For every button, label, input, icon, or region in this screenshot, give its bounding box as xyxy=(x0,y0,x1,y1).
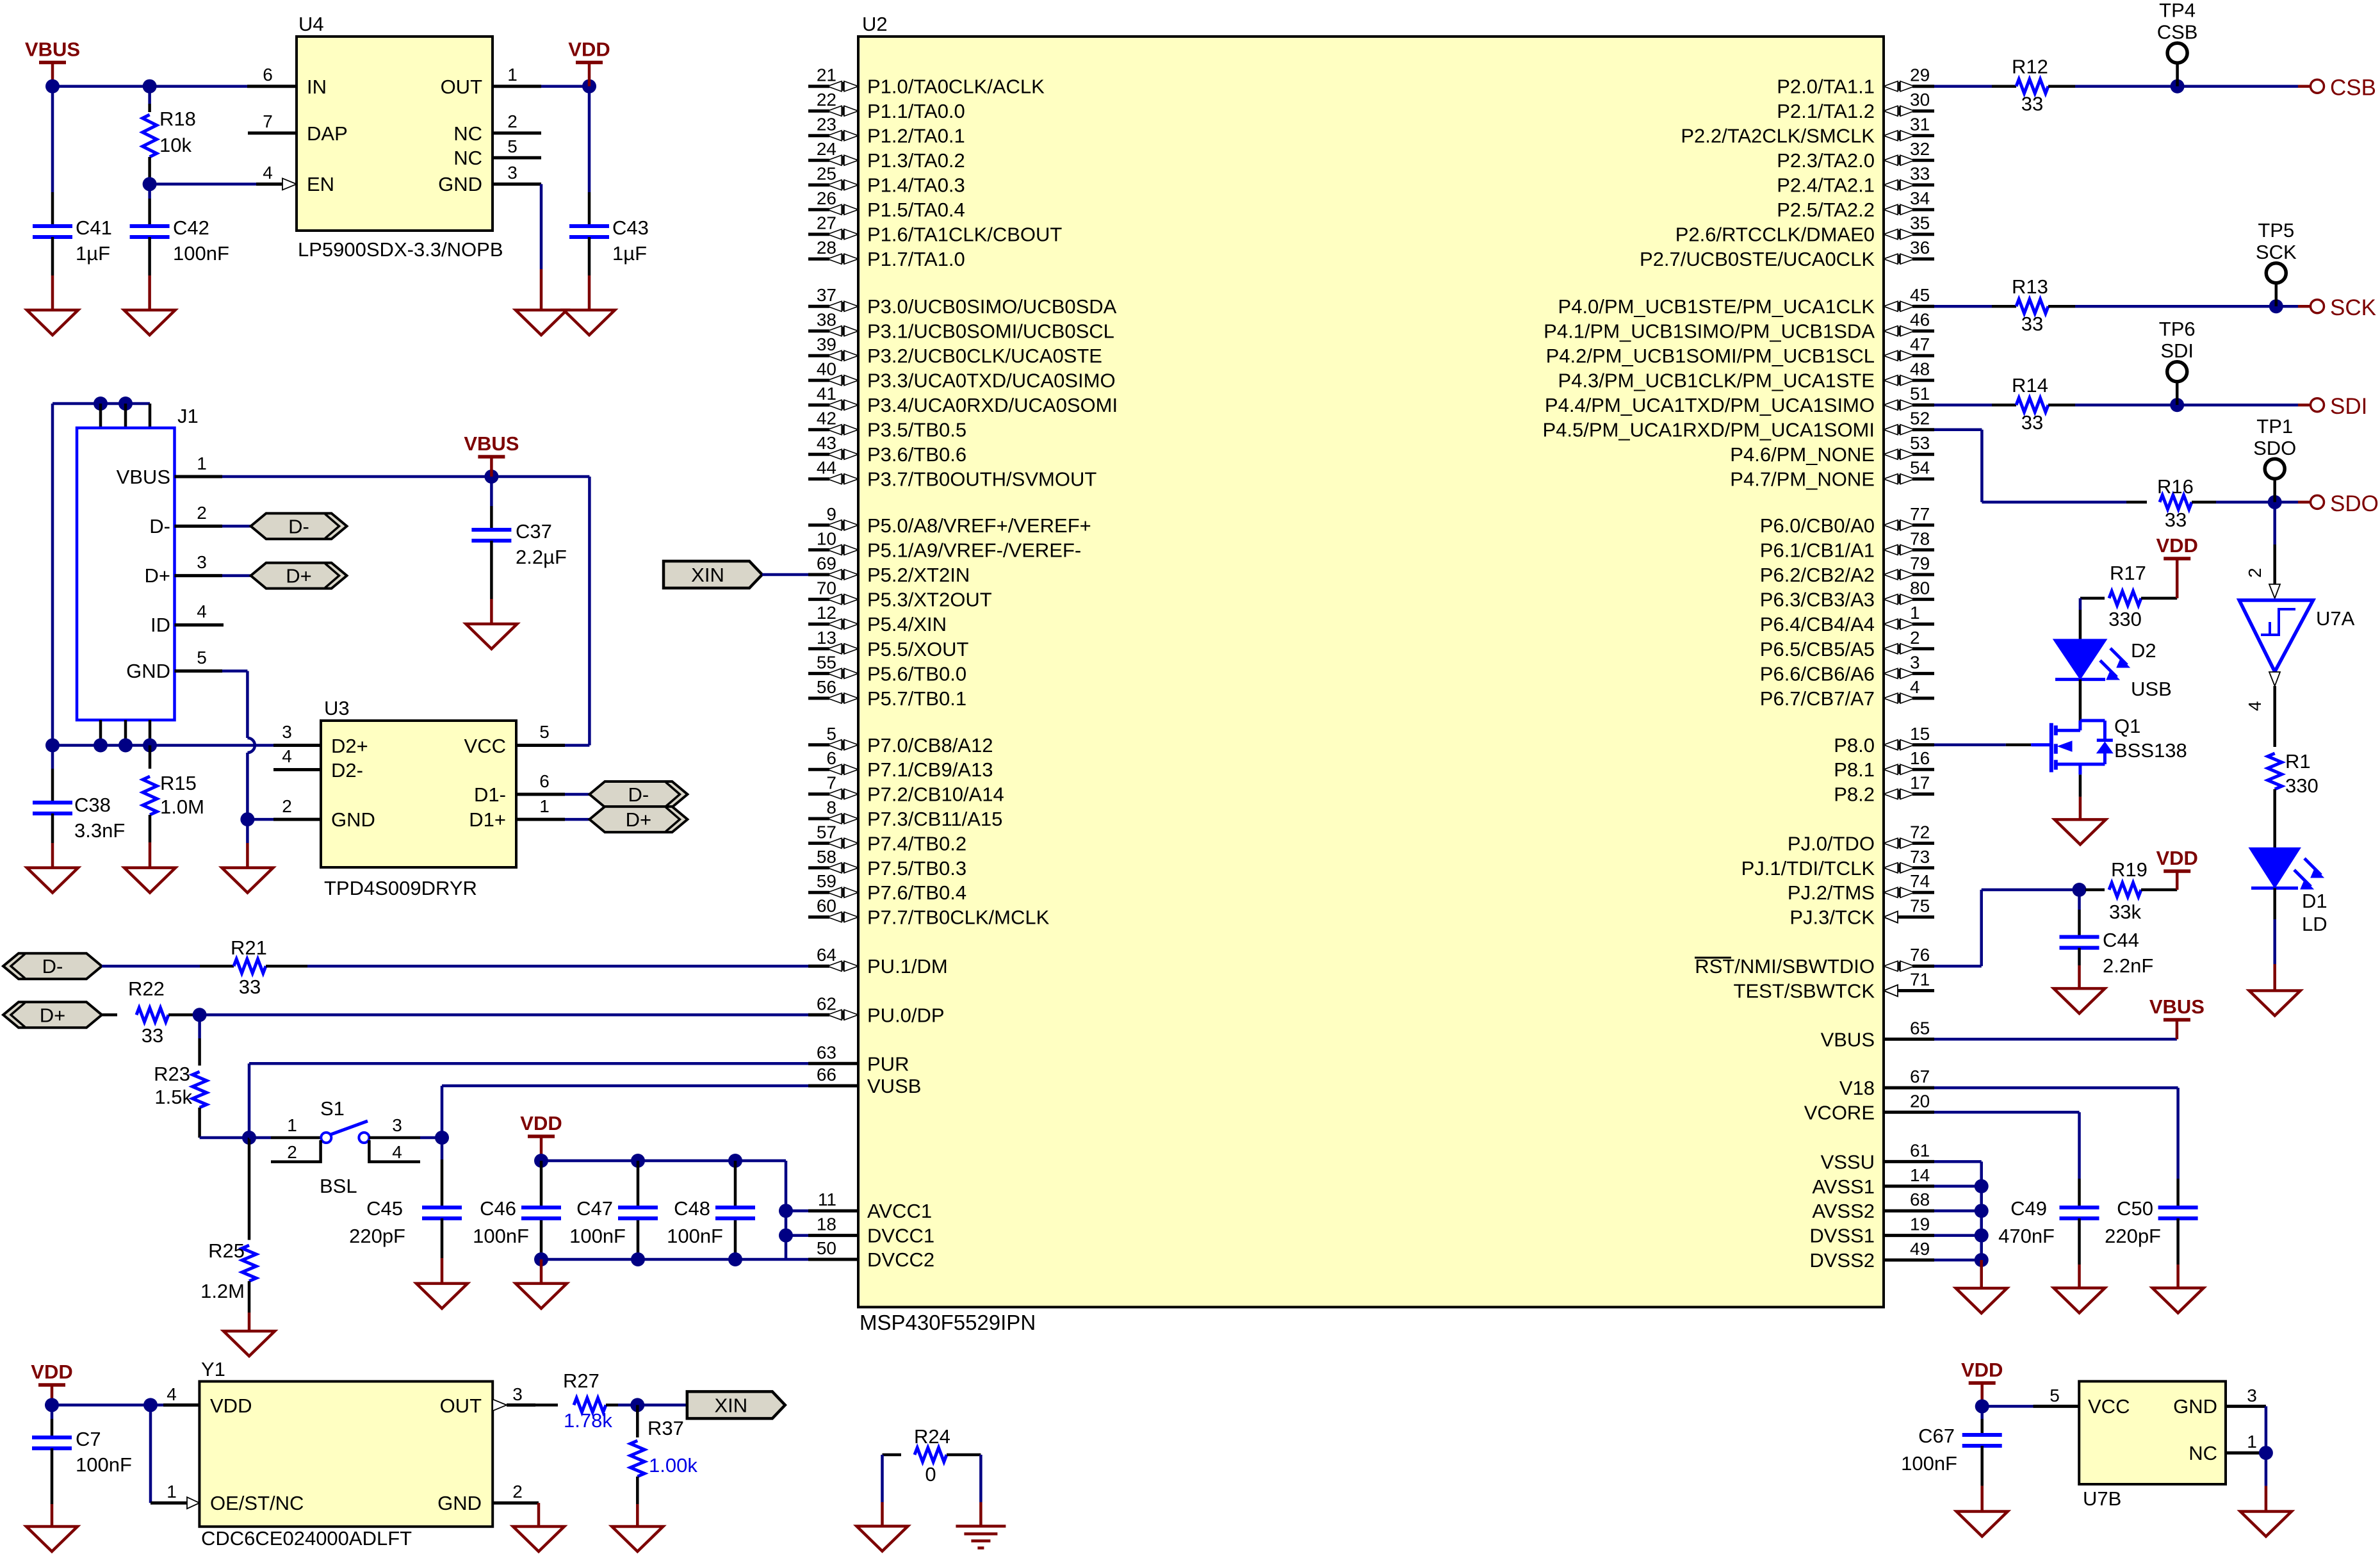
pin 35 P2.6/RTCCLK/DMAE0 xyxy=(1884,229,1898,240)
pin 74 PJ.2/TMS xyxy=(1884,887,1898,897)
svg-text:R23: R23 xyxy=(154,1063,190,1085)
svg-text:D1: D1 xyxy=(2302,890,2327,912)
svg-text:BSL: BSL xyxy=(320,1175,357,1197)
svg-text:2: 2 xyxy=(507,111,518,131)
svg-text:P6.2/CB2/A2: P6.2/CB2/A2 xyxy=(1760,564,1875,586)
pin 30 P2.1/TA1.2 xyxy=(1884,106,1898,116)
svg-text:OUT: OUT xyxy=(441,76,483,98)
resistor R37 xyxy=(636,1405,639,1437)
svg-text:P6.5/CB5/A5: P6.5/CB5/A5 xyxy=(1760,638,1875,660)
svg-text:72: 72 xyxy=(1910,822,1930,842)
svg-text:22: 22 xyxy=(817,90,836,110)
wire Y1 OE xyxy=(149,1405,152,1503)
svg-text:2: 2 xyxy=(1910,628,1920,648)
wire C67 to ground xyxy=(1980,1446,1984,1486)
svg-text:P3.6/TB0.6: P3.6/TB0.6 xyxy=(867,443,966,466)
pin 39 P3.2/UCB0CLK/UCA0STE xyxy=(808,354,829,357)
svg-text:5: 5 xyxy=(539,722,550,742)
pin 75 PJ.3/TCK xyxy=(1884,912,1898,923)
ground under U3 xyxy=(222,868,273,893)
svg-text:IN: IN xyxy=(307,76,327,98)
junction EN node xyxy=(143,177,157,191)
svg-text:C41: C41 xyxy=(76,217,112,239)
svg-text:VDD: VDD xyxy=(568,38,610,61)
pin 1 P6.4/CB4/A4 xyxy=(1884,619,1898,629)
svg-text:P7.6/TB0.4: P7.6/TB0.4 xyxy=(867,881,966,904)
svg-text:76: 76 xyxy=(1910,945,1930,965)
svg-text:P6.3/CB3/A3: P6.3/CB3/A3 xyxy=(1760,589,1875,611)
pin 69 P5.2/XT2IN xyxy=(808,573,829,577)
wire C41 to ground xyxy=(51,237,54,275)
svg-text:P1.5/TA0.4: P1.5/TA0.4 xyxy=(867,199,965,221)
pin 79 P6.2/CB2/A2 xyxy=(1884,569,1898,580)
net flag D+ (J1) xyxy=(251,563,347,589)
wire R23 to S1 node xyxy=(200,1136,249,1140)
svg-text:79: 79 xyxy=(1910,553,1930,573)
svg-text:MSP430F5529IPN: MSP430F5529IPN xyxy=(860,1311,1036,1334)
junction shield top a xyxy=(94,397,108,411)
ground under Q1 xyxy=(2055,819,2106,844)
wire VDD rail xyxy=(541,1159,786,1163)
svg-text:P4.1/PM_UCB1SIMO/PM_UCB1SDA: P4.1/PM_UCB1SIMO/PM_UCB1SDA xyxy=(1544,320,1875,343)
terminal CSB xyxy=(2298,85,2310,88)
svg-text:74: 74 xyxy=(1910,871,1930,891)
svg-text:1: 1 xyxy=(539,796,550,816)
svg-text:27: 27 xyxy=(817,213,836,233)
svg-text:1: 1 xyxy=(167,1482,177,1502)
svg-text:8: 8 xyxy=(826,798,836,817)
ground under C46 xyxy=(516,1284,567,1309)
svg-text:D1-: D1- xyxy=(474,783,506,806)
svg-text:GND: GND xyxy=(2173,1395,2217,1418)
wire R1 to D1 xyxy=(2273,789,2276,847)
wire OUT to VDD xyxy=(541,85,589,88)
svg-text:12: 12 xyxy=(817,603,836,623)
svg-text:J1: J1 xyxy=(177,405,199,427)
junction XIN node xyxy=(630,1398,644,1412)
svg-text:220pF: 220pF xyxy=(2105,1225,2161,1247)
svg-text:V18: V18 xyxy=(1839,1077,1875,1099)
wire GND to U3 pin2 xyxy=(247,818,273,821)
svg-text:33: 33 xyxy=(2021,411,2043,434)
ground under C37 xyxy=(466,624,517,649)
RST overline xyxy=(1695,957,1731,959)
svg-text:P6.0/CB0/A0: P6.0/CB0/A0 xyxy=(1760,514,1875,537)
svg-text:75: 75 xyxy=(1910,896,1930,916)
wire R12 to CSB xyxy=(2075,85,2298,88)
pin 73 PJ.1/TDI/TCLK xyxy=(1884,863,1898,873)
svg-text:XIN: XIN xyxy=(691,564,724,586)
pin 21 P1.0/TA0CLK/ACLK xyxy=(808,85,829,88)
wire PUR net xyxy=(249,1062,808,1065)
svg-text:4: 4 xyxy=(1910,677,1920,697)
wire VUSB net xyxy=(441,1086,444,1138)
pin 17 P8.2 xyxy=(1884,789,1898,799)
pin 20 VCORE xyxy=(1884,1111,1934,1114)
capacitor C67 xyxy=(1962,1433,2002,1437)
svg-text:31: 31 xyxy=(1910,115,1930,135)
net flag D+ (U3) xyxy=(589,806,687,832)
pin 4 P6.7/CB7/A7 xyxy=(1884,693,1898,703)
svg-text:R14: R14 xyxy=(2012,374,2048,397)
power flag VDD (Y1) xyxy=(38,1383,65,1387)
pin 18 DVCC1 xyxy=(808,1234,858,1237)
wire pin45 to R13 xyxy=(1934,305,1992,308)
svg-text:D2+: D2+ xyxy=(331,735,368,757)
svg-text:2: 2 xyxy=(197,503,207,523)
wire DVCC1 stub xyxy=(786,1234,808,1237)
pin 3 P6.6/CB6/A6 xyxy=(1884,668,1898,678)
svg-text:P2.5/TA2.2: P2.5/TA2.2 xyxy=(1777,199,1875,221)
resistor R21 xyxy=(234,959,266,973)
svg-text:P2.2/TA2CLK/SMCLK: P2.2/TA2CLK/SMCLK xyxy=(1681,125,1875,147)
svg-text:P4.5/PM_UCA1RXD/PM_UCA1SOMI: P4.5/PM_UCA1RXD/PM_UCA1SOMI xyxy=(1542,419,1875,441)
resistor R19 xyxy=(2085,888,2105,892)
svg-text:71: 71 xyxy=(1910,970,1930,990)
capacitor C43 xyxy=(569,224,609,228)
svg-text:33: 33 xyxy=(2165,509,2187,531)
pin 1 stub J1 VBUS xyxy=(175,475,223,479)
svg-text:P1.3/TA0.2: P1.3/TA0.2 xyxy=(867,149,965,172)
svg-text:4: 4 xyxy=(282,746,292,766)
wire pin76 to R19 node xyxy=(1934,965,1982,968)
svg-text:U7B: U7B xyxy=(2083,1487,2121,1510)
wire C42 lead xyxy=(148,184,151,199)
junction DVCC1 node xyxy=(779,1229,793,1243)
junction SDO at TP1 xyxy=(2268,495,2282,509)
pin 2 P6.5/CB5/A5 xyxy=(1884,644,1898,654)
capacitor C50 xyxy=(2158,1206,2198,1209)
svg-text:P7.3/CB11/A15: P7.3/CB11/A15 xyxy=(867,808,1002,830)
switch S1 BSL xyxy=(249,1136,271,1140)
svg-text:48: 48 xyxy=(1910,359,1930,379)
svg-text:C67: C67 xyxy=(1918,1425,1955,1447)
svg-text:7: 7 xyxy=(826,773,836,793)
svg-text:P8.2: P8.2 xyxy=(1834,783,1875,806)
svg-text:57: 57 xyxy=(817,822,836,842)
svg-text:AVSS1: AVSS1 xyxy=(1812,1175,1875,1198)
svg-text:77: 77 xyxy=(1910,504,1930,524)
svg-text:28: 28 xyxy=(817,238,836,258)
svg-text:1.0M: 1.0M xyxy=(160,796,204,818)
svg-text:P2.6/RTCCLK/DMAE0: P2.6/RTCCLK/DMAE0 xyxy=(1675,224,1875,246)
svg-text:U7A: U7A xyxy=(2316,607,2355,630)
ground under C49 xyxy=(2054,1288,2105,1313)
svg-text:P5.5/XOUT: P5.5/XOUT xyxy=(867,638,969,660)
terminal SCK xyxy=(2298,305,2310,308)
svg-text:VDD: VDD xyxy=(210,1395,252,1417)
ground under C45 xyxy=(416,1284,468,1309)
capacitor C47 xyxy=(618,1206,658,1209)
wire VBUS to U4 IN xyxy=(53,85,247,88)
svg-text:C38: C38 xyxy=(74,794,111,816)
svg-text:TP1: TP1 xyxy=(2256,415,2293,438)
pin 49 DVSS2 xyxy=(1884,1259,1934,1262)
net flag D- (J1) xyxy=(251,513,347,539)
wire R21 to PU.1 xyxy=(307,965,808,968)
svg-text:2: 2 xyxy=(512,1482,523,1502)
svg-text:65: 65 xyxy=(1910,1018,1930,1038)
pin 1 stub U3 D1+ xyxy=(516,818,565,821)
ground under R37 xyxy=(612,1526,663,1551)
junction CSB at TP4 xyxy=(2171,79,2185,94)
svg-text:2.2nF: 2.2nF xyxy=(2103,954,2153,977)
svg-text:20: 20 xyxy=(1910,1091,1930,1111)
junction DVSS1 xyxy=(1975,1229,1989,1243)
svg-text:3.3nF: 3.3nF xyxy=(74,819,125,842)
svg-text:R17: R17 xyxy=(2110,562,2146,584)
junction shield bottom left xyxy=(45,739,60,753)
ground under C44 xyxy=(2054,988,2105,1013)
svg-text:10k: 10k xyxy=(159,134,192,156)
wire R16 to SDO xyxy=(2216,501,2298,504)
svg-text:55: 55 xyxy=(817,652,836,672)
pin 78 P6.1/CB1/A1 xyxy=(1884,544,1898,555)
power flag VDD (R19) xyxy=(2164,869,2190,873)
svg-text:7: 7 xyxy=(263,111,273,131)
wire C42 to ground xyxy=(148,237,151,275)
svg-text:PJ.3/TCK: PJ.3/TCK xyxy=(1789,906,1875,929)
svg-text:VSSU: VSSU xyxy=(1821,1150,1875,1173)
svg-text:50: 50 xyxy=(817,1238,836,1258)
svg-text:5: 5 xyxy=(197,648,207,667)
wire J1 D- to flag xyxy=(222,525,251,528)
pin 64 PU.1/DM xyxy=(808,965,829,968)
svg-text:R13: R13 xyxy=(2012,275,2048,298)
svg-text:C48: C48 xyxy=(674,1197,710,1220)
capacitor C7 xyxy=(32,1436,72,1439)
svg-text:100nF: 100nF xyxy=(473,1225,529,1247)
junction SDI at TP6 xyxy=(2170,398,2184,412)
svg-text:P3.2/UCB0CLK/UCA0STE: P3.2/UCB0CLK/UCA0STE xyxy=(867,345,1102,367)
junction shield bottom a xyxy=(94,739,108,753)
junction U3 GND node xyxy=(240,812,254,826)
pin 67 V18 xyxy=(1884,1086,1934,1090)
wire C67 lead xyxy=(1980,1406,1984,1419)
svg-text:3: 3 xyxy=(2247,1386,2257,1405)
junction shield bottom c xyxy=(143,739,157,753)
ground under C67 xyxy=(1957,1512,2008,1537)
svg-text:XIN: XIN xyxy=(714,1394,747,1416)
ground under D1 xyxy=(2249,991,2301,1016)
wire U7B to ground xyxy=(2265,1453,2268,1486)
svg-text:VDD: VDD xyxy=(2156,847,2197,869)
pin 23 P1.2/TA0.1 xyxy=(808,134,829,137)
wire SDO to U7A pin2 xyxy=(2273,502,2276,544)
pin 1 stub U7B NC xyxy=(2226,1452,2266,1455)
pin 13 P5.5/XOUT xyxy=(808,647,829,650)
pin 34 P2.5/TA2.2 xyxy=(1884,204,1898,215)
svg-text:D1+: D1+ xyxy=(469,808,506,831)
ground under C50 xyxy=(2153,1288,2204,1313)
svg-text:41: 41 xyxy=(817,384,836,404)
svg-text:VBUS: VBUS xyxy=(464,432,519,455)
svg-text:SDO: SDO xyxy=(2330,491,2379,516)
pin 72 PJ.0/TDO xyxy=(1884,838,1898,848)
pin 54 P4.7/PM_NONE xyxy=(1884,474,1898,484)
wire J1 VBUS to U3 VCC xyxy=(222,475,491,479)
wire Q1 source to ground xyxy=(2079,774,2082,797)
svg-text:NC: NC xyxy=(453,147,482,169)
svg-text:D2-: D2- xyxy=(331,759,363,781)
wire C49 to ground xyxy=(2078,1218,2081,1264)
wire C45 to ground xyxy=(441,1218,444,1258)
pin 62 PU.0/DP xyxy=(808,1013,829,1017)
svg-text:1.00k: 1.00k xyxy=(649,1454,697,1477)
testpoint TP5 SCK xyxy=(2266,263,2286,283)
resistor R18 xyxy=(148,86,151,104)
svg-text:18: 18 xyxy=(817,1215,836,1234)
svg-text:P5.7/TB0.1: P5.7/TB0.1 xyxy=(867,687,966,710)
svg-text:32: 32 xyxy=(1910,139,1930,159)
wire V18 to C50 xyxy=(1934,1086,2178,1090)
svg-text:P2.1/TA1.2: P2.1/TA1.2 xyxy=(1777,100,1875,122)
junction DVCC rail C48 xyxy=(728,1252,742,1266)
svg-text:46: 46 xyxy=(1910,310,1930,330)
svg-text:62: 62 xyxy=(817,994,836,1013)
svg-text:1.78k: 1.78k xyxy=(564,1409,612,1432)
net flag D- (U3) xyxy=(589,781,687,807)
pin 63 PUR xyxy=(808,1062,858,1065)
svg-text:TP5: TP5 xyxy=(2258,219,2294,241)
junction DVCC rail C46 xyxy=(534,1252,548,1266)
svg-text:39: 39 xyxy=(817,334,836,354)
svg-text:2: 2 xyxy=(2245,568,2265,578)
wire C38 lead xyxy=(51,746,54,769)
pin 44 P3.7/TB0OUTH/SVMOUT xyxy=(808,477,829,480)
pin 3 arrow Y1 OUT xyxy=(493,1399,507,1411)
junction R19 node xyxy=(2073,883,2087,897)
arrow out of U7A xyxy=(2269,672,2280,686)
svg-text:1: 1 xyxy=(287,1115,297,1135)
svg-text:D+: D+ xyxy=(40,1004,66,1026)
svg-text:P1.2/TA0.1: P1.2/TA0.1 xyxy=(867,125,965,147)
wire EN to U4 xyxy=(150,183,256,186)
svg-text:SCK: SCK xyxy=(2330,295,2376,320)
testpoint TP6 SDI xyxy=(2167,362,2187,382)
svg-text:67: 67 xyxy=(1910,1067,1930,1086)
svg-text:P2.3/TA2.0: P2.3/TA2.0 xyxy=(1777,149,1875,172)
svg-text:P8.0: P8.0 xyxy=(1834,734,1875,757)
wire AVCC1 stub xyxy=(786,1209,808,1213)
pin 6 P7.1/CB9/A13 xyxy=(808,768,829,771)
junction D+ node xyxy=(193,1008,207,1022)
svg-text:P6.7/CB7/A7: P6.7/CB7/A7 xyxy=(1760,687,1875,710)
ground under C38 xyxy=(27,868,78,893)
svg-text:66: 66 xyxy=(817,1065,836,1084)
svg-text:SDI: SDI xyxy=(2330,394,2367,419)
pin 41 P3.4/UCA0RXD/UCA0SOMI xyxy=(808,404,829,407)
power flag VBUS (U4 input) xyxy=(39,61,66,65)
svg-text:P7.2/CB10/A14: P7.2/CB10/A14 xyxy=(867,783,1004,806)
capacitor C41 xyxy=(33,224,72,228)
svg-text:220pF: 220pF xyxy=(349,1225,405,1247)
svg-text:P3.1/UCB0SOMI/UCB0SCL: P3.1/UCB0SOMI/UCB0SCL xyxy=(867,320,1114,343)
svg-text:VBUS: VBUS xyxy=(117,466,170,488)
svg-text:Q1: Q1 xyxy=(2114,715,2140,737)
svg-text:P5.4/XIN: P5.4/XIN xyxy=(867,613,947,635)
svg-text:R25: R25 xyxy=(208,1240,245,1262)
svg-text:P7.1/CB9/A13: P7.1/CB9/A13 xyxy=(867,758,993,781)
svg-text:54: 54 xyxy=(1910,458,1930,478)
wire shield stubs bottom xyxy=(99,720,102,746)
wire C45 lead xyxy=(441,1138,444,1159)
svg-text:4: 4 xyxy=(263,163,273,183)
junction shield bottom b xyxy=(118,739,133,753)
wire C41 lead xyxy=(51,86,54,192)
svg-text:80: 80 xyxy=(1910,578,1930,598)
svg-text:33: 33 xyxy=(142,1024,163,1047)
svg-text:BSS138: BSS138 xyxy=(2114,739,2187,762)
svg-text:33k: 33k xyxy=(2109,901,2141,923)
pin 45 P4.0/PM_UCB1STE/PM_UCA1CLK xyxy=(1884,301,1898,311)
wire C43 to ground xyxy=(588,237,591,275)
wire Y1 GND to ground xyxy=(537,1503,541,1526)
pin 80 P6.3/CB3/A3 xyxy=(1884,594,1898,605)
svg-text:GND: GND xyxy=(438,173,482,195)
wire R22 to PU.0 xyxy=(200,1013,808,1017)
svg-text:19: 19 xyxy=(1910,1215,1930,1234)
resistor R25 xyxy=(248,1138,251,1240)
ground under VSS xyxy=(1956,1288,2007,1313)
svg-text:P4.0/PM_UCB1STE/PM_UCA1CLK: P4.0/PM_UCB1STE/PM_UCA1CLK xyxy=(1558,295,1875,318)
svg-text:61: 61 xyxy=(1910,1140,1930,1160)
svg-text:PJ.2/TMS: PJ.2/TMS xyxy=(1788,881,1875,904)
junction AVSS1 xyxy=(1975,1179,1989,1193)
svg-text:VBUS: VBUS xyxy=(25,38,80,61)
wire R24 left to ground xyxy=(881,1455,884,1502)
pin 42 P3.5/TB0.5 xyxy=(808,428,829,431)
svg-text:10: 10 xyxy=(817,528,836,548)
svg-text:VDD: VDD xyxy=(31,1361,72,1383)
svg-text:P1.0/TA0CLK/ACLK: P1.0/TA0CLK/ACLK xyxy=(867,76,1045,98)
terminal SDI xyxy=(2298,404,2310,407)
pin 2 stub Y1 GND xyxy=(493,1502,539,1505)
svg-text:TEST/SBWTCK: TEST/SBWTCK xyxy=(1734,980,1875,1002)
svg-text:2: 2 xyxy=(282,796,292,816)
wire pin51 to R14 xyxy=(1934,404,1992,407)
svg-text:5: 5 xyxy=(826,724,836,744)
wire C47 leads xyxy=(637,1161,640,1207)
pin 38 P3.1/UCB0SOMI/UCB0SCL xyxy=(808,329,829,332)
power flag VBUS (pin65) xyxy=(2164,1018,2190,1022)
wire to XIN flag xyxy=(637,1403,687,1407)
svg-text:P2.7/UCB0STE/UCA0CLK: P2.7/UCB0STE/UCA0CLK xyxy=(1640,248,1875,270)
svg-text:R15: R15 xyxy=(160,772,197,794)
wire C43 lead xyxy=(588,86,591,192)
svg-text:P2.0/TA1.1: P2.0/TA1.1 xyxy=(1777,76,1875,98)
svg-text:51: 51 xyxy=(1910,384,1930,404)
svg-text:R16: R16 xyxy=(2157,475,2194,498)
svg-text:Y1: Y1 xyxy=(201,1358,225,1380)
ground under C7 xyxy=(26,1526,77,1551)
svg-text:43: 43 xyxy=(817,433,836,453)
svg-text:C37: C37 xyxy=(516,520,552,543)
svg-text:P6.4/CB4/A4: P6.4/CB4/A4 xyxy=(1760,613,1875,635)
svg-text:CSB: CSB xyxy=(2157,21,2198,44)
svg-text:5: 5 xyxy=(507,136,518,156)
svg-text:R12: R12 xyxy=(2012,56,2048,78)
svg-text:3: 3 xyxy=(512,1384,523,1404)
junction VDD at C7 xyxy=(45,1398,59,1412)
testpoint TP4 CSB xyxy=(2167,43,2187,63)
svg-text:VCC: VCC xyxy=(464,735,506,757)
resistor R24 xyxy=(883,1453,902,1457)
power flag VDD (U7B) xyxy=(1969,1381,1996,1385)
svg-text:P3.0/UCB0SIMO/UCB0SDA: P3.0/UCB0SIMO/UCB0SDA xyxy=(867,295,1117,318)
svg-text:P5.1/A9/VREF-/VEREF-: P5.1/A9/VREF-/VEREF- xyxy=(867,539,1081,561)
LED D2 xyxy=(2053,639,2107,680)
